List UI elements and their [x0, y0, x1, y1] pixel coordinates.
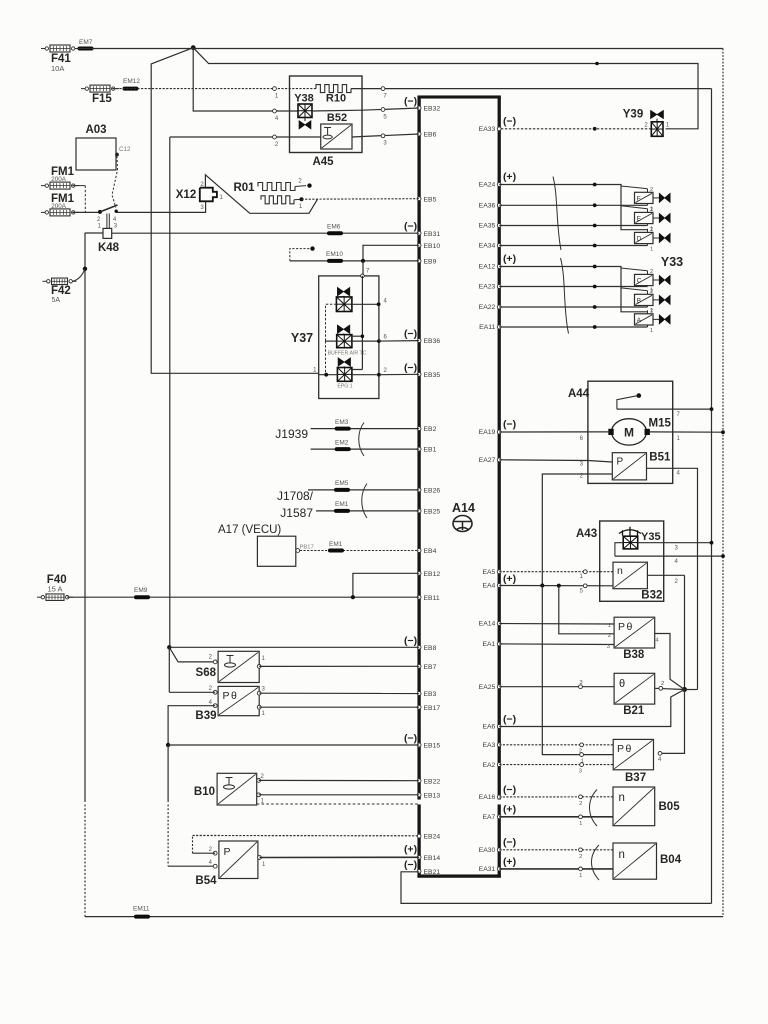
svg-text:EA6: EA6: [482, 724, 495, 731]
svg-text:(+): (+): [404, 844, 417, 856]
solenoid valve Y39: [623, 109, 670, 137]
svg-text:(−): (−): [503, 419, 516, 431]
svg-text:PB17: PB17: [300, 545, 314, 551]
svg-text:B51: B51: [649, 452, 671, 464]
svg-text:Y33: Y33: [661, 255, 683, 269]
wire Y37 left link down: [325, 341, 327, 375]
svg-text:EA33: EA33: [479, 126, 496, 133]
svg-text:2: 2: [298, 179, 302, 185]
svg-text:3: 3: [579, 768, 582, 774]
svg-text:P: P: [223, 690, 230, 702]
wire junction to S68 pin2: [169, 647, 215, 662]
wire X12 pin3 to K48 contact: [117, 201, 206, 212]
svg-text:Y38: Y38: [294, 93, 314, 105]
wire junction down to A45 pin 4: [193, 48, 298, 111]
node EB11 junction: [351, 595, 355, 599]
svg-text:EA36: EA36: [479, 203, 496, 210]
valve Y37-1: [336, 287, 352, 311]
svg-text:1: 1: [608, 623, 611, 629]
svg-text:J1708/: J1708/: [277, 489, 314, 503]
svg-text:A03: A03: [85, 124, 106, 136]
wire X12 pin2 to EB5 net: [205, 175, 317, 214]
svg-text:EM12: EM12: [123, 78, 140, 85]
wire junction to EB15: [168, 744, 419, 746]
valve block Y37 box: [319, 276, 379, 399]
svg-text:C: C: [637, 278, 642, 285]
wire EA31 to B04 pin1: [499, 867, 613, 879]
wire S68 pin1 to EB7: [259, 665, 419, 667]
svg-text:2: 2: [650, 308, 653, 314]
wire EA3 to B37 pin2: [499, 743, 613, 755]
temperature sensor B10: [194, 773, 265, 805]
wire EA7 to B05 pin1: [499, 815, 613, 827]
relay coil K48: [98, 223, 118, 238]
wire EA19 to motor: [499, 432, 608, 442]
node top junction: [191, 45, 196, 50]
svg-text:EB24: EB24: [424, 834, 441, 841]
wire B38 pin4 to star: [655, 634, 685, 690]
wire junction to EB8: [169, 646, 419, 648]
svg-text:EB1: EB1: [424, 447, 437, 454]
svg-text:15 A: 15 A: [48, 585, 63, 594]
wire EA5 to B32 pin1: [499, 570, 613, 580]
wire bottom EM11 run: [85, 916, 723, 918]
svg-text:EA4: EA4: [482, 583, 495, 590]
svg-text:EB21: EB21: [424, 869, 441, 876]
wire EB9 run with EM10: [290, 260, 419, 262]
wire B21 pin2 to star: [655, 681, 685, 690]
wire EA35 to valve E: [499, 225, 647, 227]
wire supply to B38 pin2: [559, 586, 614, 639]
svg-text:2: 2: [579, 801, 582, 807]
ECU left connector EB pins: [417, 106, 440, 876]
wire A45 row2 Y38 feed: [298, 108, 419, 111]
svg-text:4: 4: [656, 638, 660, 644]
svg-text:3: 3: [200, 205, 204, 211]
svg-text:A17 (VECU): A17 (VECU): [218, 524, 281, 536]
svg-text:Y39: Y39: [623, 109, 643, 121]
wire B39 pin3 to EB3: [259, 692, 419, 694]
svg-text:EB31: EB31: [424, 231, 441, 238]
wire Y35 pin3 to rail: [638, 541, 714, 552]
stub terminal above EB9 wire: [290, 246, 315, 260]
wire EA16 to B05 pin2: [499, 795, 613, 807]
svg-text:(−): (−): [503, 837, 516, 849]
resistor R01 lower: [261, 196, 303, 210]
svg-text:3: 3: [607, 644, 610, 650]
wire Y39 pin2 to EA33: [499, 128, 651, 130]
wire Y37-1 right lead to pin 4: [352, 299, 388, 307]
svg-text:A45: A45: [312, 156, 334, 168]
fuse F42 5A: [43, 278, 77, 304]
svg-text:n: n: [619, 792, 625, 804]
svg-text:EM5: EM5: [335, 480, 349, 487]
ECU steering-wheel icon: [453, 516, 472, 532]
svg-text:EA19: EA19: [479, 429, 496, 436]
svg-text:F15: F15: [92, 93, 112, 105]
svg-text:M: M: [624, 426, 634, 440]
svg-text:EB11: EB11: [424, 595, 440, 602]
svg-text:E: E: [637, 216, 641, 223]
svg-text:EB17: EB17: [424, 705, 441, 712]
svg-text:EB36: EB36: [424, 338, 441, 345]
pressure-temp sensor B38: [614, 617, 655, 661]
splice dots Y33 wires: [593, 183, 597, 329]
svg-text:EPG 1: EPG 1: [337, 384, 352, 390]
svg-text:EA35: EA35: [479, 223, 496, 230]
control unit A17 (VECU): [218, 524, 296, 566]
svg-text:200A: 200A: [51, 203, 67, 210]
svg-text:6: 6: [384, 335, 388, 341]
svg-text:EA12: EA12: [479, 264, 496, 271]
ECU right connector EA pins: [479, 126, 501, 873]
twisted pair arc B05: [590, 790, 598, 827]
svg-text:5A: 5A: [52, 297, 61, 304]
wire F42 to left bus: [73, 269, 85, 282]
label A45: [312, 156, 334, 168]
splice dot on Y39 supply wire: [595, 62, 599, 66]
loom slash group2: [561, 258, 569, 334]
svg-text:S68: S68: [196, 667, 217, 679]
wire Y37-2 row to EB36: [326, 335, 420, 344]
speed sensor B04: [613, 843, 682, 879]
wire B39 pin1 to EB17: [259, 706, 419, 708]
svg-text:2: 2: [209, 686, 213, 692]
wire B54 pin1 to EB14: [260, 856, 420, 858]
svg-text:1: 1: [579, 821, 582, 827]
motor M15: [608, 418, 671, 446]
wire right rail R10 down to EB21 return: [711, 89, 713, 904]
svg-text:EB10: EB10: [424, 243, 441, 250]
twisted pair arc J1708: [362, 484, 367, 519]
label Y37: [291, 331, 313, 345]
svg-text:EB32: EB32: [424, 106, 441, 113]
svg-text:B: B: [637, 298, 641, 305]
polarity labels at EA pins: [503, 116, 516, 869]
wire B51 pin4 to sensor node: [647, 468, 698, 689]
svg-text:EB3: EB3: [424, 691, 437, 698]
wire junction down to B39: [168, 647, 170, 692]
wire EA25 to B21: [499, 680, 614, 689]
svg-text:4: 4: [675, 559, 679, 565]
ECU A14 box: [418, 96, 501, 878]
svg-text:EA30: EA30: [479, 847, 496, 854]
svg-text:EB8: EB8: [424, 645, 437, 652]
svg-text:(+): (+): [503, 856, 516, 868]
wire marker EM3: [335, 419, 349, 429]
wire Y37 pin1 row to EB35: [313, 368, 419, 377]
loom slash group1: [553, 177, 561, 251]
svg-text:1: 1: [262, 656, 266, 662]
svg-text:3: 3: [675, 546, 679, 552]
svg-text:B21: B21: [623, 705, 645, 717]
fuse FM1 200A (1): [41, 166, 79, 189]
svg-text:EB9: EB9: [424, 259, 437, 266]
fuse F40 15A: [37, 574, 73, 600]
wire A44 pin7 row: [617, 407, 713, 418]
svg-text:A43: A43: [576, 528, 597, 540]
wire EA30 to B04 pin2: [499, 848, 613, 860]
svg-text:θ: θ: [626, 743, 632, 755]
wire EB12 branch: [353, 573, 419, 597]
resistor R10: [316, 85, 351, 105]
svg-text:2: 2: [644, 123, 648, 129]
wire to EB5: [302, 198, 420, 201]
wire B39 pin4 down: [168, 706, 215, 745]
wire marker EM2: [335, 440, 349, 450]
label 200A (2): [51, 203, 67, 210]
svg-text:1: 1: [650, 247, 653, 253]
svg-text:EB25: EB25: [424, 509, 441, 516]
svg-text:B04: B04: [660, 854, 682, 866]
wire right-side supply drop (outer loop down right side): [722, 49, 724, 917]
solenoid Y38: [294, 93, 314, 130]
wire R10 to right rail: [351, 88, 712, 90]
wire B54 pin2 to EB24: [193, 836, 420, 854]
node EB8 junction: [167, 645, 171, 649]
node F42 junction: [83, 267, 87, 271]
assembly A43 box: [600, 521, 664, 601]
wire A17 to EB4: [300, 550, 419, 552]
wire C12 dashed to K48: [112, 156, 118, 208]
wire EA22 to valve B: [499, 306, 647, 308]
wire FM1-1 jog to K48 row: [72, 186, 85, 213]
svg-text:2: 2: [209, 655, 213, 661]
svg-text:1: 1: [98, 223, 102, 229]
svg-text:Y37: Y37: [291, 331, 313, 345]
svg-text:EA1: EA1: [482, 641, 495, 648]
svg-text:200A: 200A: [51, 176, 67, 183]
svg-text:EB15: EB15: [424, 743, 441, 750]
svg-text:P: P: [617, 743, 624, 755]
node sensor common star point: [682, 687, 687, 692]
svg-text:EB2: EB2: [424, 426, 437, 433]
dashed section divider: [257, 803, 419, 805]
svg-text:7: 7: [383, 94, 387, 100]
ECU label A14: [452, 501, 475, 515]
wire motor to outer loop: [650, 430, 725, 442]
svg-text:EB6: EB6: [424, 132, 437, 139]
speed sensor B32: [613, 562, 662, 601]
wire B39 pin2 feed: [169, 691, 215, 693]
relay contact K48: [97, 205, 118, 223]
svg-text:EB5: EB5: [424, 196, 437, 203]
svg-text:1: 1: [262, 862, 266, 868]
wire EB1 J1939 lo: [311, 448, 420, 450]
speed sensor B05: [613, 787, 680, 826]
splice dot EA33 wire: [593, 127, 597, 131]
svg-text:7: 7: [366, 269, 370, 275]
svg-text:EA27: EA27: [479, 457, 496, 464]
svg-text:B32: B32: [641, 590, 662, 602]
relay actuator link K48: [107, 214, 109, 229]
wire B10 pin2 to EB22: [259, 779, 419, 781]
svg-text:EA11: EA11: [479, 324, 495, 331]
svg-text:n: n: [619, 849, 625, 861]
svg-text:2: 2: [675, 579, 679, 585]
svg-text:B38: B38: [623, 649, 645, 661]
svg-text:(−): (−): [404, 635, 417, 647]
wire Y35 pin4 to outer loop: [615, 554, 725, 565]
resistor R01 upper: [233, 179, 311, 195]
svg-text:2: 2: [650, 269, 653, 275]
wire EA14 to B38 pin1: [499, 623, 614, 629]
wire marker EM1 bus: [335, 501, 349, 511]
wire EA4 to B32 pin5: [499, 584, 613, 595]
pressure-temp sensor B39: [195, 686, 265, 722]
svg-text:4: 4: [209, 700, 213, 706]
svg-text:6: 6: [580, 436, 584, 442]
svg-text:7: 7: [677, 412, 681, 418]
svg-text:4: 4: [658, 757, 662, 763]
svg-text:EA25: EA25: [479, 684, 496, 691]
svg-text:1: 1: [220, 195, 224, 201]
svg-text:(−): (−): [404, 859, 417, 871]
svg-text:EM7: EM7: [79, 39, 93, 46]
svg-text:3: 3: [262, 687, 266, 693]
svg-text:1: 1: [666, 123, 670, 129]
svg-text:EA16: EA16: [479, 794, 496, 801]
svg-text:Y35: Y35: [641, 531, 661, 543]
svg-text:(+): (+): [503, 171, 516, 183]
svg-text:4: 4: [209, 860, 213, 866]
solenoid valve Y35: [615, 527, 661, 556]
svg-text:(−): (−): [503, 784, 516, 796]
svg-text:EM11: EM11: [133, 906, 150, 913]
svg-text:C12: C12: [119, 146, 131, 153]
svg-text:2: 2: [384, 368, 388, 374]
wire EB2 J1939 hi: [311, 428, 420, 430]
svg-text:1: 1: [262, 711, 266, 717]
svg-text:2: 2: [275, 142, 279, 148]
svg-text:B54: B54: [195, 875, 217, 887]
svg-text:B37: B37: [625, 772, 646, 784]
Y37 internal supply line: [361, 276, 363, 370]
wire junction to Y39 supply: [193, 48, 698, 129]
svg-text:EA22: EA22: [479, 304, 496, 311]
svg-text:EA24: EA24: [479, 182, 496, 189]
svg-text:4: 4: [275, 116, 279, 122]
svg-text:(−): (−): [404, 733, 417, 745]
label BUFFER AIR TC: [328, 351, 367, 357]
svg-text:2: 2: [661, 681, 664, 687]
node EB15 junction: [166, 743, 170, 747]
svg-text:3: 3: [579, 680, 582, 686]
svg-text:X12: X12: [176, 189, 196, 201]
svg-text:F42: F42: [51, 285, 71, 297]
svg-text:EB14: EB14: [424, 855, 441, 862]
svg-text:EM1: EM1: [335, 501, 349, 508]
svg-text:EM1: EM1: [329, 541, 343, 548]
svg-text:(+): (+): [503, 573, 516, 585]
svg-text:D: D: [637, 236, 642, 243]
wire B10 pin1 to EB13: [259, 794, 419, 796]
wire supply to B37 pin1: [542, 586, 613, 765]
wire EA23 to valve C: [499, 286, 647, 288]
wire EA2 to B37 pin3: [499, 763, 613, 775]
wire K48 coil pin1 to left bus: [85, 232, 103, 234]
svg-text:2: 2: [608, 633, 611, 639]
wire Y37-1 left lead: [326, 304, 337, 341]
wire EA24 feed bus: [499, 185, 647, 230]
svg-text:R10: R10: [326, 93, 346, 105]
wire EA27 to B51 pin3: [499, 460, 612, 468]
wire K48 coil pin3 to EB31: [112, 232, 419, 234]
wire EA36 to valve F: [499, 204, 647, 206]
pin circles A45 left: [273, 87, 279, 148]
label K48: [98, 242, 120, 254]
fuse F41 10A: [41, 45, 79, 73]
svg-text:(−): (−): [503, 116, 516, 128]
svg-text:P: P: [224, 846, 231, 858]
svg-text:P: P: [618, 621, 625, 633]
svg-text:EB35: EB35: [424, 372, 441, 379]
svg-text:4: 4: [384, 299, 388, 305]
svg-text:J1939: J1939: [275, 427, 308, 441]
svg-text:(−): (−): [404, 96, 417, 108]
control unit A03: [76, 124, 131, 170]
wire marker EM12: [123, 78, 140, 89]
svg-text:5: 5: [580, 589, 584, 595]
svg-text:EM6: EM6: [327, 223, 341, 230]
svg-text:(−): (−): [404, 328, 417, 340]
wire marker EM7: [79, 39, 93, 49]
wire node down to Y37 pin 7: [362, 261, 364, 276]
svg-text:A: A: [637, 317, 642, 324]
svg-text:M15: M15: [649, 418, 672, 430]
svg-text:EA34: EA34: [479, 243, 496, 250]
svg-text:BUFFER AIR TC: BUFFER AIR TC: [328, 351, 367, 357]
wire A45 row3 B52 to EB6: [352, 134, 419, 137]
label EPG 1: [337, 384, 352, 390]
svg-text:2: 2: [650, 289, 653, 295]
svg-text:1: 1: [299, 204, 303, 210]
svg-text:EA31: EA31: [479, 866, 496, 873]
wire EB25 J1587: [316, 510, 419, 512]
wire B51 pin2 supply: [542, 474, 612, 586]
wire marker EM1: [329, 541, 343, 551]
svg-text:A44: A44: [568, 388, 590, 400]
wire F40 to EB11: [67, 596, 419, 598]
wire B32 pin2 to sensor node: [647, 575, 684, 689]
svg-text:1: 1: [677, 436, 681, 442]
wire left-side bus down: [84, 233, 86, 917]
wire F41 to top-right corner (supply bus): [78, 48, 723, 50]
svg-text:EB22: EB22: [424, 778, 441, 785]
svg-text:F: F: [637, 196, 641, 203]
svg-text:θ: θ: [627, 621, 633, 633]
svg-text:B39: B39: [195, 710, 216, 722]
svg-text:2: 2: [209, 847, 213, 853]
wire FM1-2 to K48 pivot: [72, 211, 100, 213]
svg-text:1: 1: [579, 873, 582, 879]
wire left vertical B52 ground drop: [169, 137, 171, 647]
svg-text:(+): (+): [503, 804, 516, 816]
svg-text:EA5: EA5: [482, 569, 495, 576]
valve Y37-2: [337, 325, 352, 348]
svg-text:EM10: EM10: [326, 251, 343, 258]
valve bank Y33: [635, 187, 671, 334]
node EA4 supply junctions: [540, 584, 561, 588]
svg-text:2: 2: [650, 207, 653, 213]
svg-text:EB4: EB4: [424, 548, 437, 555]
svg-text:(+): (+): [503, 253, 516, 265]
label A43: [576, 528, 597, 540]
svg-text:2: 2: [261, 774, 265, 780]
svg-text:EB13: EB13: [424, 792, 441, 799]
svg-text:(−): (−): [404, 221, 417, 233]
wire EB21 to bottom rail: [401, 872, 712, 904]
